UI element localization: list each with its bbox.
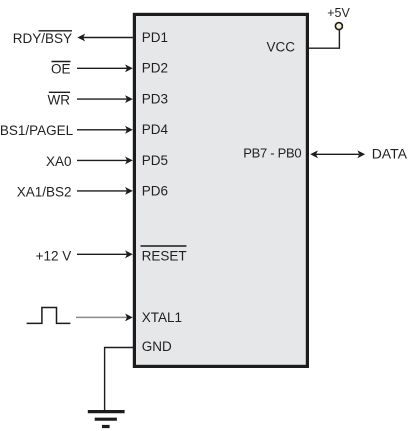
WR overline (49, 91, 70, 93)
svg-text:PD2: PD2 (142, 61, 168, 76)
svg-text:+12 V: +12 V (36, 248, 72, 263)
wire PD3 (77, 98, 127, 100)
wire PD5 (77, 159, 127, 161)
svg-text:PB7 - PB0: PB7 - PB0 (243, 146, 301, 161)
wire DATA bus (316, 153, 359, 155)
svg-text:RESET: RESET (142, 249, 187, 264)
arrowhead XTAL1 (125, 314, 133, 322)
RESET overline (141, 245, 187, 247)
svg-text:PD4: PD4 (142, 122, 169, 137)
wire PD6 (77, 190, 127, 192)
svg-text:XTAL1: XTAL1 (142, 310, 182, 325)
svg-text:XA1/BS2: XA1/BS2 (17, 184, 72, 199)
arrowhead RESET (125, 250, 133, 258)
OE overline (52, 61, 71, 63)
svg-text:+5V: +5V (327, 6, 350, 20)
svg-text:WR: WR (48, 93, 71, 108)
clock pulse symbol (27, 308, 71, 324)
wire PD2 (77, 67, 127, 69)
arrowhead PD1 (points left) (77, 34, 85, 42)
svg-text:GND: GND (142, 339, 172, 354)
wire GND to ground (105, 348, 133, 411)
arrowhead DATA left (310, 150, 318, 158)
wire PD4 (77, 129, 127, 131)
wire XTAL1 (gray) (76, 316, 127, 318)
arrowhead PD2 (125, 64, 133, 72)
arrowhead PD3 (125, 95, 133, 103)
MCU body U1 (134, 14, 307, 366)
+5V terminal circle (335, 23, 342, 30)
wire PD1 (83, 37, 133, 39)
svg-text:OE: OE (51, 62, 71, 77)
ground symbol (88, 412, 125, 427)
svg-text:XA0: XA0 (46, 154, 72, 169)
svg-text:DATA: DATA (372, 146, 408, 162)
svg-text:VCC: VCC (266, 39, 295, 54)
arrowhead PD5 (125, 157, 133, 165)
svg-text:RDY/BSY: RDY/BSY (13, 31, 72, 46)
arrowhead PD6 (125, 187, 133, 195)
svg-text:BS1/PAGEL: BS1/PAGEL (0, 123, 74, 138)
RDY/BSY overline over BSY (39, 30, 73, 32)
svg-text:PD5: PD5 (142, 153, 168, 168)
wire RESET (77, 253, 127, 255)
svg-text:PD3: PD3 (142, 92, 168, 107)
svg-text:PD1: PD1 (142, 30, 168, 45)
svg-text:PD6: PD6 (142, 183, 168, 198)
wire VCC to +5V (308, 30, 340, 48)
arrowhead DATA right (357, 150, 365, 158)
arrowhead PD4 (125, 126, 133, 134)
